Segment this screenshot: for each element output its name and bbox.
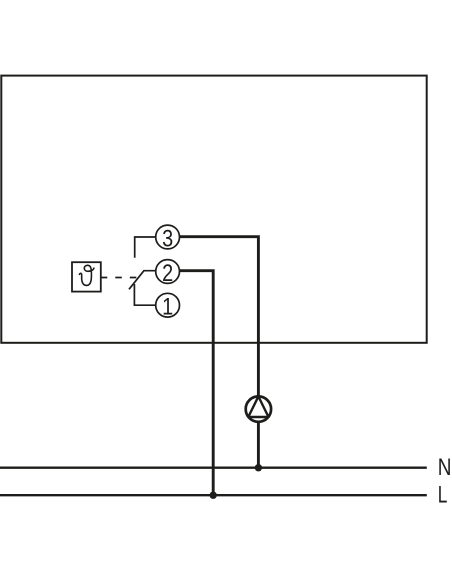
L line (0, 494, 427, 496)
switch lever (129, 271, 156, 290)
terminal circle 3 (156, 225, 180, 249)
svg-text:N: N (438, 453, 452, 481)
pump M1 circle (246, 396, 271, 421)
theta symbol (79, 265, 94, 285)
svg-text:1: 1 (162, 293, 173, 320)
svg-text:3: 3 (162, 225, 173, 252)
dashed actuator link (101, 277, 137, 279)
svg-text:2: 2 (162, 259, 173, 286)
wire terminal3 to switch contact (135, 237, 156, 258)
wire terminal3 to pump (thick) (180, 237, 259, 397)
terminal circle 1 (156, 293, 180, 317)
N line (0, 467, 427, 469)
svg-text:L: L (438, 482, 448, 508)
wire pump to N line (257, 422, 260, 468)
pump triangle (248, 396, 268, 417)
wire terminal2 to L line (thick) (180, 271, 214, 496)
device outline rectangle (1, 76, 426, 343)
wire terminal1 to switch pivot (134, 284, 155, 305)
junction wire-L (210, 492, 217, 499)
thermostat sensor box (72, 262, 101, 291)
terminal circle 2 (156, 260, 180, 284)
junction pump-N (255, 464, 262, 471)
